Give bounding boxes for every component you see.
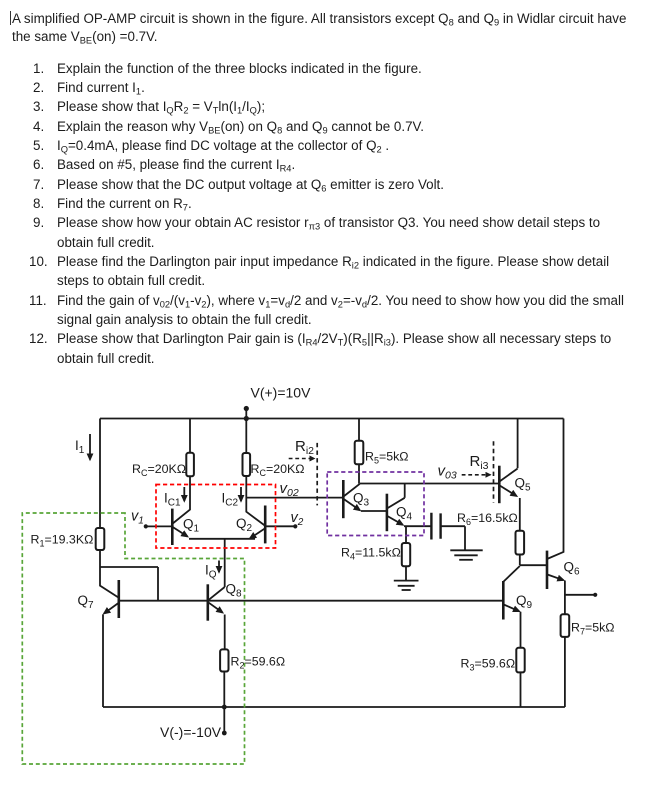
wire Q3 emitter to Q4 base [361,510,387,512]
svg-text:R3=59.6Ω: R3=59.6Ω [461,657,516,673]
svg-text:Q3: Q3 [353,491,370,509]
svg-text:v02: v02 [280,480,299,499]
svg-text:R5=5kΩ: R5=5kΩ [365,450,409,466]
wire right rail top (Q6 collector) [547,419,564,560]
Ri2 dashed marker line [316,443,318,506]
svg-text:Q8: Q8 [226,582,243,600]
transistor Q8 [208,584,223,620]
purple dashed block (darlington) [327,472,424,536]
transistor Q6 [547,551,564,589]
wire bottom rail [103,706,565,708]
wire V+ stub [245,409,247,419]
caret [10,11,11,25]
svg-text:RC=20KΩ: RC=20KΩ [251,462,305,478]
svg-text:V(-)=-10V: V(-)=-10V [160,724,222,740]
wire right RC drop / Q2 collector [246,419,264,526]
wire Q9 collector [504,566,520,582]
wire left RC drop [173,419,190,524]
svg-text:IQ: IQ [205,563,217,581]
Ri2 dashed arrow [289,458,315,460]
svg-text:I1: I1 [75,438,85,456]
svg-text:RC=20KΩ: RC=20KΩ [132,462,186,478]
paragraph [12,12,626,25]
wire Q5 emitter / R6 [519,498,521,565]
resistor R6 [516,531,525,555]
Ri3 dashed marker line [493,441,495,502]
transistor Q5 [499,466,517,504]
current arrow IQ [218,561,220,573]
node V+ upper dot [244,406,249,411]
svg-text:Ri3: Ri3 [470,453,489,472]
wire v02 line [246,497,343,499]
wire Q8 emitter down / R2 [223,615,225,734]
transistor Q2 [250,506,265,544]
resistor R2 [220,649,228,671]
svg-text:Q4: Q4 [396,505,413,523]
svg-text:R6=16.5kΩ: R6=16.5kΩ [457,511,518,527]
svg-text:R4=11.5kΩ: R4=11.5kΩ [341,546,401,562]
svg-text:Q6: Q6 [564,560,581,578]
green dashed block (widlar) [22,513,244,764]
ground below capacitor [450,550,482,560]
svg-text:IC2: IC2 [222,491,239,509]
wire Q4 collector riser [404,484,406,498]
transistor Q1 [172,509,187,545]
wire Q7-Q8-Q9 base rail [119,600,504,602]
svg-text:V(+)=10V: V(+)=10V [251,385,312,401]
svg-text:v03: v03 [438,463,457,482]
transistor Q3 [343,480,360,518]
node v2 terminal dot [293,524,297,528]
node bottom rail junction dot [222,705,227,710]
transistor Q4 [387,494,405,532]
wire R5 drop [358,419,360,484]
resistor R1 [96,528,105,550]
Ri3 dashed arrow [462,474,491,476]
wire cap to ground [441,526,465,550]
current arrow I1 [89,434,91,460]
wire Q9 emitter / R3 [520,612,522,707]
wire Q5 collector riser [517,419,519,469]
wire Q8 collector [208,587,224,600]
resistor R3 [516,648,524,673]
svg-text:v2: v2 [291,510,304,528]
resistor RC left [186,453,194,477]
wire left rail [99,419,101,529]
svg-text:R7=5kΩ: R7=5kΩ [571,621,615,637]
svg-text:Ri2: Ri2 [295,438,314,457]
wire Q3/Q4 collector line to Q5 [360,483,499,485]
node V+ rail dot [244,416,249,421]
svg-text:Q9: Q9 [516,593,533,611]
wire Q6 emitter / output / R7 [565,581,595,708]
current arrow IC1 [183,487,185,501]
red dashed block (diff pair) [156,485,276,549]
resistor R4 [402,543,410,566]
wire tail down to Q8 [224,539,226,587]
svg-text:v1: v1 [131,509,144,527]
svg-text:R1=19.3KΩ: R1=19.3KΩ [31,533,94,549]
list [33,62,44,75]
wire Q7 collector [100,567,119,598]
node V- terminal dot [222,731,227,736]
node output terminal dot [593,593,597,597]
wire Q4 emitter node to cap [404,525,431,527]
wire node to base tie [100,567,158,601]
node v1 terminal dot [144,524,148,528]
svg-text:Q1: Q1 [183,517,200,535]
ground below R4 [394,581,419,590]
resistor R7 [561,614,570,637]
wire R6 node to Q6 base [520,564,547,566]
svg-text:Q2: Q2 [236,516,253,534]
wire Q4 emitter to R4 [405,526,407,581]
resistor R5 [355,441,364,465]
wire common emitter rail [189,538,255,540]
wire Q7 emitter down [102,614,104,707]
wire R1 bottom to node [99,550,101,567]
capacitor (bypass) plates [431,513,440,540]
transistor Q9 [503,581,519,620]
svg-text:IC1: IC1 [164,491,181,509]
svg-text:Q5: Q5 [515,476,532,494]
resistor RC right [243,453,251,476]
wire Q2 base [265,525,295,527]
transistor Q7 (mirrored) [104,580,119,618]
wire top rail [100,418,564,420]
svg-text:R2=59.6Ω: R2=59.6Ω [231,655,286,671]
wire Q1 base [146,525,172,527]
current arrow IC2 [240,487,242,501]
svg-text:Q7: Q7 [78,593,95,611]
